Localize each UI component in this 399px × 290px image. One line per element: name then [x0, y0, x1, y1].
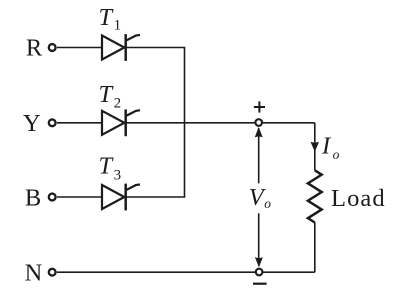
svg-text:T: T [99, 4, 115, 31]
label T3 [99, 153, 122, 184]
terminal B [49, 194, 56, 201]
node + (positive output) [255, 119, 262, 126]
svg-text:T: T [99, 153, 115, 180]
wire B to T3 anode [57, 196, 102, 198]
label T2 [99, 81, 122, 112]
svg-text:N: N [25, 260, 43, 287]
label T1 [99, 4, 122, 34]
svg-text:B: B [25, 184, 41, 211]
terminal Y [49, 119, 56, 126]
label - [253, 283, 267, 285]
node - (negative output) [256, 269, 263, 276]
label + [254, 101, 265, 112]
wire node - to bottom right corner [263, 271, 315, 273]
resistor Load [308, 170, 322, 222]
wire right branch top (node + corner down to load) [314, 123, 316, 171]
wire right branch bottom (load to node -) [314, 223, 316, 273]
wire T3 cathode to bus [126, 196, 186, 198]
V_o arrow (double headed, between nodes) [255, 127, 263, 267]
wire Y to T2 anode [57, 122, 102, 124]
wire node + to right corner [262, 122, 315, 124]
thyristor T2 [102, 109, 140, 136]
wire T1 cathode to bus [126, 47, 186, 49]
wire T2 cathode to node + [126, 122, 256, 124]
thyristor T1 [102, 34, 140, 61]
wire R to T1 anode [57, 47, 102, 49]
wire N to node - [57, 271, 255, 273]
I_o arrow (current direction) [311, 142, 320, 152]
wire vertical bus joining thyristor outputs [184, 48, 186, 198]
svg-text:I: I [321, 132, 332, 159]
label V_o [249, 184, 272, 211]
svg-text:2: 2 [114, 95, 122, 111]
svg-text:o: o [333, 147, 340, 162]
svg-text:o: o [264, 196, 271, 211]
svg-text:1: 1 [114, 18, 122, 34]
terminal N [49, 269, 56, 276]
svg-text:Y: Y [23, 110, 41, 137]
terminal R [49, 44, 56, 51]
thyristor T3 [102, 184, 140, 211]
svg-text:R: R [26, 35, 43, 62]
svg-text:Load: Load [331, 185, 386, 212]
svg-text:3: 3 [114, 168, 122, 184]
svg-text:T: T [99, 81, 115, 108]
label I_o [321, 132, 340, 161]
